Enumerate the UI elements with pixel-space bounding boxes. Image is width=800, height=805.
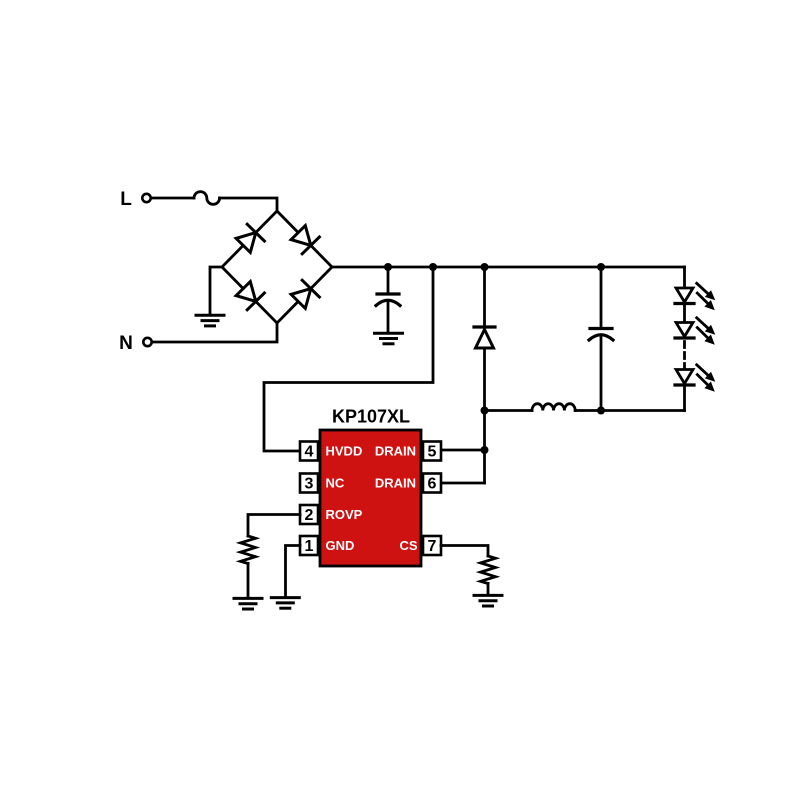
diode D4 bottom-right xyxy=(291,280,319,308)
pin 4 box xyxy=(300,442,318,461)
junction node rail-HVDD xyxy=(429,263,437,271)
wire fuse to bridge top xyxy=(220,198,277,211)
LED D6 xyxy=(675,283,715,310)
diode D5 xyxy=(474,327,495,348)
wire drain pin6 xyxy=(441,482,485,485)
svg-text:N: N xyxy=(119,333,133,354)
svg-text:5: 5 xyxy=(428,444,437,461)
ground R1 xyxy=(234,598,262,609)
wire resistor R2 to ground xyxy=(487,584,490,595)
svg-text:L: L xyxy=(120,189,132,210)
diode D1 top-left xyxy=(236,224,264,252)
IC U1 body xyxy=(320,430,421,566)
fuse F1 xyxy=(194,192,220,205)
diode D5 freewheel column wire xyxy=(483,267,486,325)
svg-text:4: 4 xyxy=(305,444,314,461)
LED D8 xyxy=(675,365,715,392)
wire HVDD feed xyxy=(264,267,433,451)
svg-text:DRAIN: DRAIN xyxy=(375,476,416,491)
wire ROVP to resistor xyxy=(248,515,300,537)
capacitor C2 xyxy=(589,267,613,411)
wire L to fuse xyxy=(151,197,194,200)
capacitor C1 xyxy=(376,267,400,332)
svg-text:GND: GND xyxy=(326,538,355,553)
wire LED3 to bottom xyxy=(683,385,686,411)
svg-text:6: 6 xyxy=(428,476,437,493)
pin 1 box xyxy=(300,536,318,555)
wire CS to resistor xyxy=(441,546,488,557)
wire resistor R1 to ground xyxy=(247,564,250,598)
wire rail to LED string xyxy=(683,267,686,288)
pin 6 box xyxy=(423,474,441,493)
wire main rail xyxy=(332,266,685,269)
svg-text:HVDD: HVDD xyxy=(326,444,363,459)
inductor L1 xyxy=(532,404,575,411)
junction node drain pin5 xyxy=(481,446,489,454)
pin 3 box xyxy=(300,474,318,493)
svg-text:DRAIN: DRAIN xyxy=(375,444,416,459)
junction node bottom-C2 xyxy=(597,407,605,415)
wire diode to drain node xyxy=(483,348,486,483)
svg-text:3: 3 xyxy=(305,476,314,493)
svg-text:7: 7 xyxy=(428,538,437,555)
wire bottom node to inductor xyxy=(485,409,533,412)
junction node rail-C1 xyxy=(384,263,392,271)
svg-text:ROVP: ROVP xyxy=(326,507,363,522)
junction node rail-C2 xyxy=(597,263,605,271)
ground GND pin xyxy=(271,598,299,609)
wire inductor to LED bottom xyxy=(575,409,684,412)
pin 2 box xyxy=(300,505,318,524)
svg-text:1: 1 xyxy=(305,538,314,555)
wire LED1-LED2 xyxy=(683,304,686,323)
svg-text:NC: NC xyxy=(326,476,345,491)
terminal L xyxy=(142,194,150,202)
wire GND pin to ground xyxy=(286,546,301,597)
diode D3 bottom-left xyxy=(236,282,264,310)
svg-text:2: 2 xyxy=(305,507,314,524)
svg-text:KP107XL: KP107XL xyxy=(332,407,410,427)
dashed wire LED2-LED3 xyxy=(683,342,686,370)
bridge rectifier BR1 frame xyxy=(222,211,332,323)
wire N to bridge bottom xyxy=(152,323,277,342)
LED D7 xyxy=(675,318,715,345)
terminal N xyxy=(143,338,151,346)
resistor R1 xyxy=(241,536,256,564)
junction node bottom-D5 xyxy=(481,407,489,415)
ground bridge xyxy=(196,315,224,326)
ground C1 xyxy=(375,333,403,344)
pin 7 box xyxy=(423,536,441,555)
ground R2 xyxy=(474,595,502,606)
resistor R2 xyxy=(481,556,496,584)
svg-text:CS: CS xyxy=(399,538,417,553)
diode D2 top-right xyxy=(291,226,319,254)
wire bridge left to ground xyxy=(210,267,222,314)
junction node rail-D5 xyxy=(481,263,489,271)
pin 5 box xyxy=(423,442,441,461)
wire drain pin5 xyxy=(441,449,485,452)
